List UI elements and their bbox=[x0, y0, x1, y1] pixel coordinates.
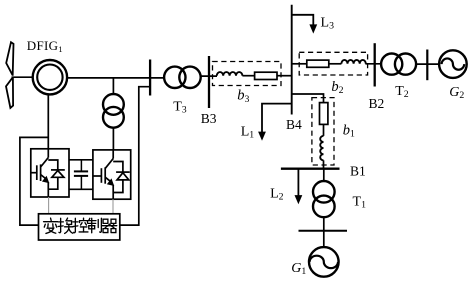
line b1 dashed box bbox=[312, 98, 334, 165]
bus B3 bbox=[208, 56, 210, 108]
igbt Q1 bbox=[47, 149, 49, 158]
wire T2 to G2 bbox=[416, 63, 440, 65]
wire DFIG rotor stem bbox=[47, 94, 49, 149]
svg-text:T2: T2 bbox=[395, 84, 409, 100]
generator G1 bbox=[309, 247, 339, 277]
load L3 arrow bbox=[292, 15, 314, 26]
load L2 arrow bbox=[297, 169, 299, 197]
wire b1 to B1 bbox=[323, 160, 325, 168]
wire control link U1 to controller bbox=[48, 197, 50, 214]
bus B2 bbox=[374, 43, 376, 86]
svg-text:b2: b2 bbox=[331, 79, 343, 96]
converter RSC box U1 bbox=[31, 149, 69, 197]
diode D1 bbox=[48, 160, 58, 170]
char 器 bbox=[102, 219, 116, 232]
wire B4 to b1 bbox=[292, 94, 324, 103]
wire hub to DFIG bbox=[12, 76, 33, 78]
transformer rotor-side (unlabeled) bbox=[112, 78, 114, 94]
svg-text:B2: B2 bbox=[369, 96, 385, 111]
converter GSC box U2 bbox=[93, 150, 131, 199]
svg-text:G2: G2 bbox=[449, 85, 464, 101]
node bus bar (PCC) bbox=[149, 60, 151, 96]
transformer T2 bbox=[381, 54, 402, 75]
wind turbine WT bbox=[6, 42, 14, 108]
inductor b2 bbox=[341, 60, 365, 64]
svg-text:b3: b3 bbox=[237, 88, 249, 105]
wire b3 to B4 bbox=[277, 75, 292, 77]
node B4 vertical line bbox=[291, 5, 293, 115]
wire grid sense loop right bbox=[120, 87, 150, 225]
generator DFIG1 bbox=[33, 60, 67, 94]
svg-text:DFIG1: DFIG1 bbox=[27, 38, 63, 54]
bus B1 bbox=[281, 168, 340, 170]
resistor b1 bbox=[320, 103, 328, 125]
wire DFIG to bus bbox=[67, 77, 163, 79]
svg-text:T3: T3 bbox=[173, 100, 187, 116]
svg-text:L1: L1 bbox=[241, 125, 255, 141]
wire bbox=[242, 75, 254, 77]
wire bbox=[323, 124, 325, 135]
generator G2 bbox=[439, 50, 467, 78]
capacitor C bbox=[69, 159, 93, 161]
inductor b3 bbox=[217, 72, 243, 76]
diode D2 bbox=[113, 162, 123, 173]
resistor b2 bbox=[307, 60, 329, 67]
node bar below T1 bbox=[299, 230, 348, 232]
wire bbox=[329, 63, 342, 65]
wire control link U2 to controller bbox=[112, 199, 114, 214]
char 控 bbox=[73, 218, 88, 233]
char 换 bbox=[58, 218, 73, 233]
line b2 dashed box bbox=[299, 52, 367, 75]
svg-text:T1: T1 bbox=[353, 195, 367, 211]
svg-text:b1: b1 bbox=[343, 123, 355, 140]
wire to G1 bbox=[323, 231, 325, 247]
wire stator sense loop left bbox=[20, 137, 48, 225]
char 制 bbox=[88, 218, 102, 232]
load L1 arrow bbox=[262, 104, 292, 133]
wire b2 to B2 bbox=[365, 63, 381, 65]
svg-text:L2: L2 bbox=[270, 186, 284, 202]
svg-text:B3: B3 bbox=[201, 111, 217, 126]
char 变 bbox=[44, 218, 58, 233]
transformer T3 bbox=[164, 67, 185, 88]
controller box (变换控制器) bbox=[39, 214, 120, 240]
node bar right of T2 bbox=[426, 50, 428, 81]
transformer T1 bbox=[323, 169, 325, 182]
svg-text:B1: B1 bbox=[350, 164, 366, 179]
resistor b3 bbox=[255, 72, 277, 79]
igbt Q2 bbox=[112, 150, 114, 159]
inductor b1 bbox=[320, 136, 323, 160]
wire T3 to B3 bbox=[200, 75, 217, 77]
svg-text:G1: G1 bbox=[291, 261, 306, 277]
line b3 dashed box bbox=[213, 62, 282, 86]
svg-text:B4: B4 bbox=[286, 117, 302, 132]
wire B4 to b2 bbox=[292, 63, 307, 65]
svg-text:L3: L3 bbox=[321, 16, 335, 32]
